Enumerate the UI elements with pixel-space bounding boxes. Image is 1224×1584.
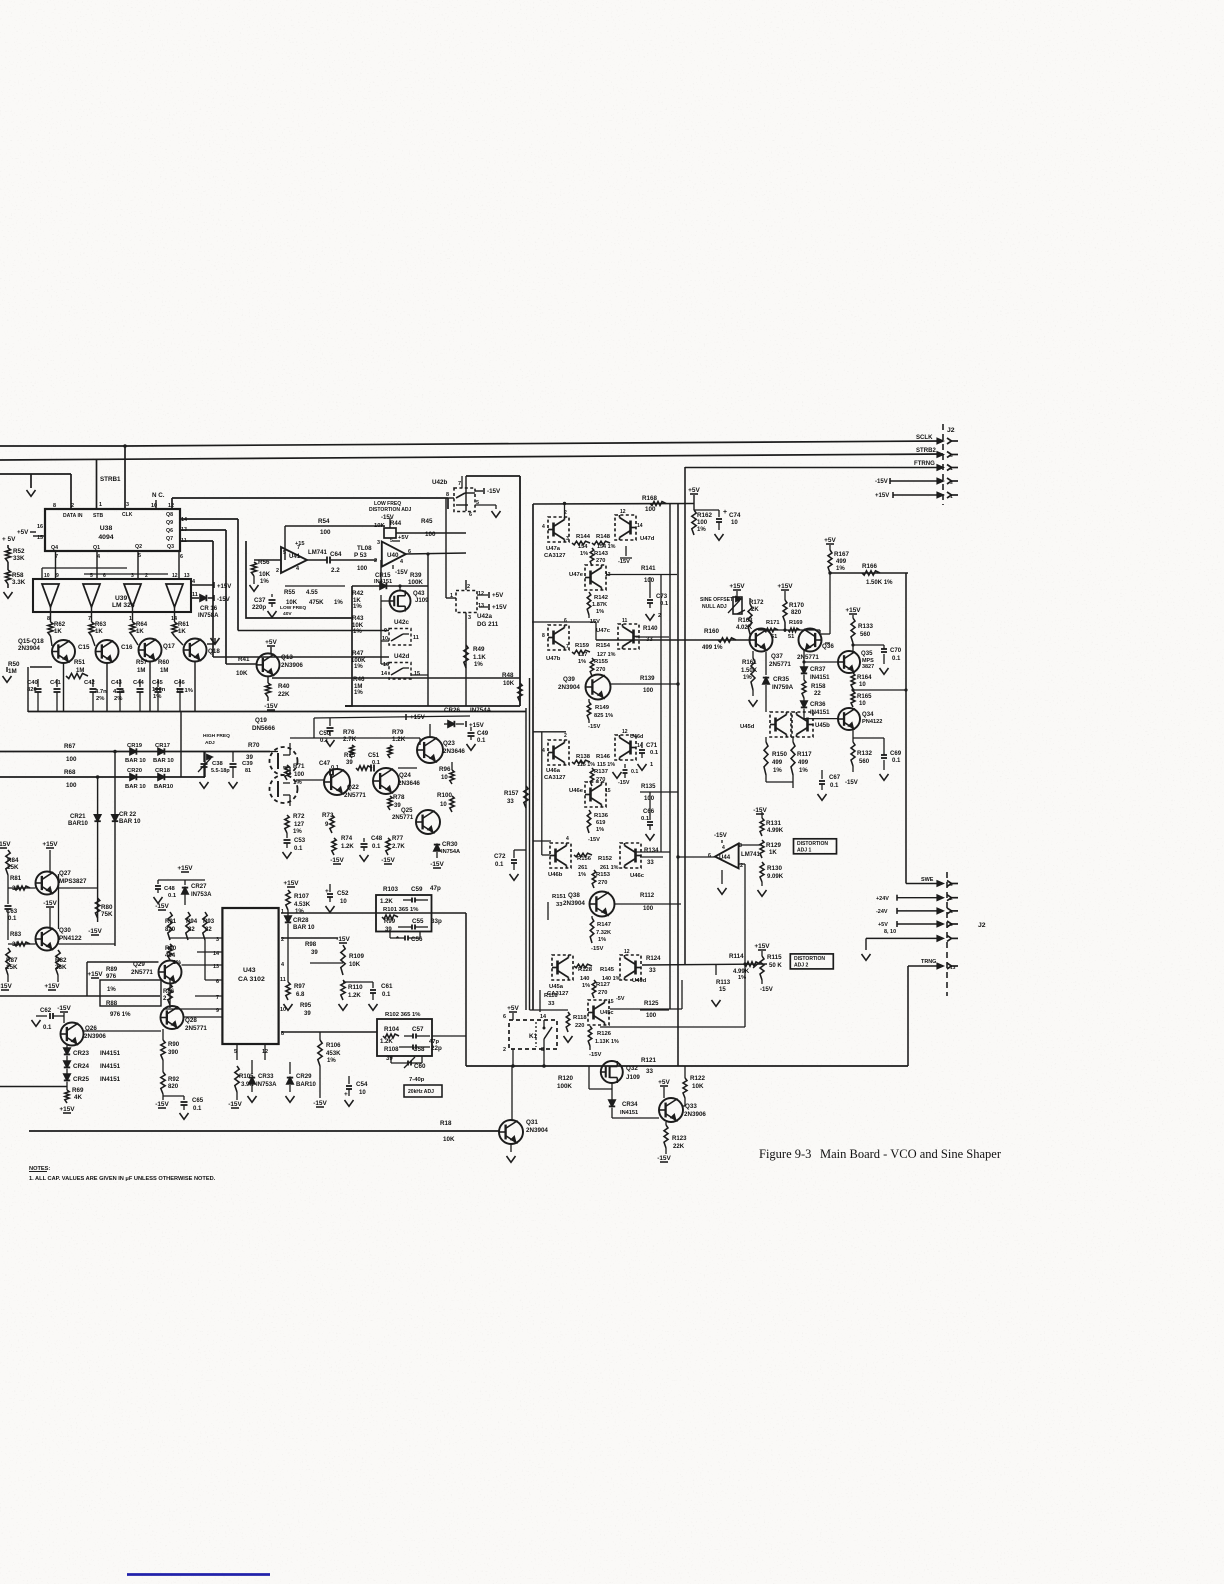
svg-text:R116: R116 <box>544 993 558 999</box>
capacitor C38 5.5-18p trimmer <box>203 752 205 763</box>
svg-text:Q35: Q35 <box>861 651 873 657</box>
svg-text:33: 33 <box>548 1001 555 1007</box>
transistor Q34 PN4122 <box>838 708 860 730</box>
svg-text:15: 15 <box>608 999 614 1005</box>
wire K1 to killed <box>466 1065 908 1067</box>
svg-text:+5V: +5V <box>492 592 504 599</box>
svg-text:R165: R165 <box>857 694 872 700</box>
svg-text:R69: R69 <box>72 1087 84 1094</box>
svg-text:R129: R129 <box>766 842 781 849</box>
svg-text:3: 3 <box>377 540 380 546</box>
svg-text:R140: R140 <box>643 626 658 632</box>
transistor Q18 <box>175 636 184 645</box>
wire array right rail <box>669 504 671 1009</box>
resistor R51 1M <box>66 673 88 678</box>
diode CR21 BAR10 <box>94 815 100 821</box>
svg-text:U42c: U42c <box>394 619 409 626</box>
svg-text:U45c: U45c <box>600 1010 614 1016</box>
ground R161 <box>752 690 754 696</box>
svg-text:10K: 10K <box>503 681 515 687</box>
svg-text:C41: C41 <box>50 680 61 686</box>
svg-text:C46: C46 <box>174 680 185 686</box>
transistor cell U40d <box>620 955 641 980</box>
svg-text:270: 270 <box>596 667 605 673</box>
svg-text:J109: J109 <box>626 1074 640 1081</box>
svg-text:R149: R149 <box>595 705 610 711</box>
svg-text:J2: J2 <box>947 427 955 434</box>
transistor cell U45d <box>770 712 791 737</box>
svg-text:Q31: Q31 <box>526 1119 538 1126</box>
svg-text:Figure 9-3: Figure 9-3 <box>759 1147 811 1161</box>
ground R130 <box>761 882 763 886</box>
capacitor C43 4.7n <box>119 679 121 687</box>
svg-text:4: 4 <box>281 962 284 968</box>
svg-text:R18: R18 <box>440 1120 452 1127</box>
svg-text:261 1%: 261 1% <box>600 865 619 871</box>
svg-text:1: 1 <box>129 616 132 622</box>
svg-text:-5V: -5V <box>616 996 625 1002</box>
svg-text:Main Board - VCO and Sine Shap: Main Board - VCO and Sine Shaper <box>820 1147 1002 1161</box>
transistor Q38 2N3904 <box>590 892 615 917</box>
svg-text:U46e: U46e <box>569 788 584 794</box>
svg-text:1: 1 <box>99 502 102 508</box>
svg-text:1%: 1% <box>107 987 116 993</box>
svg-text:499 1%: 499 1% <box>702 645 723 651</box>
svg-text:R170: R170 <box>789 602 804 609</box>
svg-text:11: 11 <box>413 635 419 641</box>
diode CR36 IN4151 <box>801 701 807 707</box>
wire Q37 base line <box>596 639 751 641</box>
svg-text:-15V: -15V <box>228 1101 242 1108</box>
svg-text:2N3906: 2N3906 <box>684 1111 706 1118</box>
diode CR30 IN754A <box>434 845 440 851</box>
svg-text:7: 7 <box>297 545 300 551</box>
svg-text:U47d: U47d <box>640 536 655 542</box>
svg-text:Q43: Q43 <box>413 591 425 597</box>
svg-text:1.87K: 1.87K <box>592 602 608 608</box>
svg-text:C15: C15 <box>78 644 90 651</box>
svg-text:DATA IN: DATA IN <box>63 513 83 519</box>
svg-text:R123: R123 <box>672 1136 687 1142</box>
wire Q32 drain down <box>611 1089 613 1100</box>
svg-text:U47c: U47c <box>596 628 611 634</box>
svg-text:IN4151: IN4151 <box>100 1063 121 1070</box>
svg-text:10: 10 <box>441 775 448 781</box>
svg-text:-15V: -15V <box>588 724 600 730</box>
svg-text:C43: C43 <box>111 680 122 686</box>
svg-text:1%: 1% <box>697 527 706 533</box>
svg-text:R89: R89 <box>106 967 118 973</box>
svg-text:976 1%: 976 1% <box>110 1012 131 1018</box>
svg-text:Q6: Q6 <box>166 528 173 534</box>
svg-text:BAR10: BAR10 <box>296 1082 316 1088</box>
svg-text:C69: C69 <box>890 751 902 757</box>
transistor Q28 2N5771 <box>161 1006 184 1029</box>
wire K1 pins down <box>512 1049 514 1066</box>
svg-text:3.3K: 3.3K <box>12 579 26 586</box>
svg-text:1.50K: 1.50K <box>741 668 758 674</box>
svg-text:DISTORTION: DISTORTION <box>794 956 825 962</box>
svg-text:6: 6 <box>708 853 711 859</box>
svg-text:IN4151: IN4151 <box>810 675 830 681</box>
power -15V Q13 <box>267 697 269 701</box>
svg-text:Q25: Q25 <box>401 808 413 814</box>
svg-text:R121: R121 <box>641 1057 656 1064</box>
wire U39 pin4 +15V <box>191 584 213 586</box>
svg-text:Q7: Q7 <box>166 536 173 542</box>
svg-text:10K: 10K <box>236 670 248 677</box>
svg-text:C73: C73 <box>656 594 668 600</box>
svg-text:1K: 1K <box>136 629 144 635</box>
wire R41 to Q13 <box>226 663 257 665</box>
svg-text:39: 39 <box>346 760 353 766</box>
svg-text:1.13K 1%: 1.13K 1% <box>595 1039 619 1045</box>
svg-text:0.1: 0.1 <box>477 738 486 744</box>
svg-text:2N3904: 2N3904 <box>563 900 585 907</box>
svg-text:22: 22 <box>814 691 821 697</box>
wire R126 row <box>600 1026 745 1028</box>
svg-text:100K: 100K <box>557 1083 572 1090</box>
ground R56 <box>250 585 259 591</box>
svg-text:2: 2 <box>71 503 74 509</box>
svg-text:R79: R79 <box>392 729 404 736</box>
svg-text:C70: C70 <box>890 648 902 654</box>
svg-text:CR33: CR33 <box>258 1074 274 1080</box>
svg-text:C55: C55 <box>412 918 424 925</box>
svg-text:1%: 1% <box>773 768 782 774</box>
svg-text:22p: 22p <box>431 1045 442 1052</box>
svg-text:R60: R60 <box>158 660 170 666</box>
svg-text:CR17: CR17 <box>155 743 170 749</box>
wire CR21 CR22 drop <box>113 750 117 754</box>
transistor Q19 DN5666 dual-gate <box>270 747 298 775</box>
svg-text:2N5771: 2N5771 <box>344 792 366 799</box>
svg-text:R45: R45 <box>421 518 433 525</box>
svg-text:FTRNG: FTRNG <box>914 461 935 467</box>
svg-text:10K: 10K <box>443 1136 455 1143</box>
svg-text:DG 211: DG 211 <box>477 621 499 628</box>
wire U38 pin13 out <box>180 529 226 531</box>
svg-text:560: 560 <box>860 632 871 638</box>
svg-text:R50: R50 <box>8 661 20 668</box>
svg-text:8: 8 <box>47 616 50 622</box>
wire left rails <box>525 708 527 1010</box>
svg-text:4: 4 <box>722 845 725 851</box>
svg-text:R152: R152 <box>598 856 613 862</box>
resistor R40 22K <box>267 677 269 684</box>
transistor Q16 <box>92 636 96 646</box>
wire U42d input <box>213 656 389 658</box>
wire STRB2 bus <box>0 454 943 460</box>
diode CR20 BAR10 <box>130 774 136 780</box>
svg-text:-15V: -15V <box>618 780 630 786</box>
svg-text:3: 3 <box>126 502 129 508</box>
svg-text:33: 33 <box>647 860 654 866</box>
wire U42c input <box>238 630 389 632</box>
svg-text:7: 7 <box>55 554 58 560</box>
ground C37 low freq <box>268 611 277 617</box>
svg-text:C42: C42 <box>84 680 95 686</box>
svg-text:0.1: 0.1 <box>168 893 177 899</box>
svg-text:CR26: CR26 <box>444 707 461 714</box>
svg-text:39: 39 <box>386 1056 393 1062</box>
svg-text:CR30: CR30 <box>442 842 458 848</box>
svg-text:4.99K: 4.99K <box>767 828 784 834</box>
svg-text:CR37: CR37 <box>810 667 826 673</box>
capacitor C70 0.1 <box>853 644 884 646</box>
wire Q19 circuit lines <box>313 718 315 738</box>
svg-text:R62: R62 <box>54 622 66 628</box>
svg-text:ADJ 2: ADJ 2 <box>794 963 808 969</box>
wire bottom bus <box>28 711 526 713</box>
svg-text:-15V: -15V <box>589 1052 601 1058</box>
svg-text:C45: C45 <box>152 680 163 686</box>
svg-text:R147: R147 <box>597 922 611 928</box>
svg-text:Q2: Q2 <box>135 544 142 550</box>
svg-text:IN4151: IN4151 <box>374 579 392 585</box>
svg-text:1K: 1K <box>95 629 103 635</box>
diode CR18 BAR10 <box>158 774 164 780</box>
svg-text:U47a: U47a <box>546 546 561 552</box>
svg-text:1%: 1% <box>836 566 845 572</box>
svg-text:Q22: Q22 <box>347 784 359 791</box>
capacitor C44 <box>139 679 141 687</box>
svg-text:R107: R107 <box>294 893 309 900</box>
wires U43 left pins <box>170 937 222 939</box>
svg-text:1: 1 <box>281 909 284 915</box>
svg-text:BAR10: BAR10 <box>154 784 174 790</box>
wire U43 pin8 to R102 box <box>281 1031 377 1033</box>
wire R68 line <box>0 776 205 778</box>
svg-text:39: 39 <box>311 950 318 956</box>
svg-text:Q28: Q28 <box>185 1017 197 1024</box>
svg-text:1%: 1% <box>799 768 808 774</box>
svg-text:R80: R80 <box>101 904 113 911</box>
svg-text:-15V: -15V <box>264 703 278 710</box>
svg-text:U45b: U45b <box>815 723 830 729</box>
svg-text:2N3906: 2N3906 <box>281 662 303 669</box>
svg-text:10: 10 <box>340 899 347 905</box>
IC U39 LM324 <box>33 579 191 612</box>
svg-text:R167: R167 <box>834 551 849 558</box>
svg-text:13: 13 <box>478 603 484 609</box>
svg-text:2%: 2% <box>96 696 105 702</box>
svg-text:2N5771: 2N5771 <box>769 661 791 668</box>
svg-text:100: 100 <box>357 566 368 572</box>
svg-text:+15V: +15V <box>875 493 889 499</box>
svg-text:R81: R81 <box>10 876 22 882</box>
svg-text:-15V: -15V <box>381 515 394 521</box>
svg-text:1%: 1% <box>353 604 362 610</box>
resistor R61 1K <box>174 607 176 622</box>
wire R168 line <box>533 503 694 506</box>
svg-text:C64: C64 <box>330 551 342 558</box>
svg-text:BAR 10: BAR 10 <box>153 758 175 764</box>
svg-text:U40d: U40d <box>632 978 647 984</box>
wire diode chain bus <box>0 1086 67 1088</box>
resistor R62 1K <box>50 607 52 622</box>
capacitor C46 1u <box>179 679 181 687</box>
svg-text:3: 3 <box>566 536 569 542</box>
svg-text:CLK: CLK <box>122 512 133 518</box>
svg-text:499: 499 <box>772 760 783 766</box>
svg-text:0.1: 0.1 <box>650 750 659 756</box>
svg-text:R63: R63 <box>95 622 107 628</box>
svg-text:15: 15 <box>605 788 611 794</box>
svg-text:2.7K: 2.7K <box>392 844 405 850</box>
svg-text:R151: R151 <box>552 894 567 900</box>
svg-text:+: + <box>325 888 329 895</box>
svg-text:2N3906: 2N3906 <box>84 1033 106 1040</box>
transistor cell U46d <box>615 735 636 760</box>
pot R44 balance <box>384 528 396 538</box>
node CLK junction <box>123 444 127 448</box>
svg-text:976: 976 <box>106 974 117 980</box>
svg-text:6: 6 <box>950 453 953 459</box>
capacitor C40 820 <box>37 679 39 687</box>
svg-text:220p: 220p <box>252 604 266 611</box>
svg-text:R141: R141 <box>641 566 656 572</box>
svg-text:R113: R113 <box>716 980 731 986</box>
svg-text:475K: 475K <box>309 600 324 606</box>
diode CR34 IN4151 <box>609 1100 615 1106</box>
svg-text:100: 100 <box>320 529 331 536</box>
svg-text:9: 9 <box>950 882 953 888</box>
svg-text:SWE: SWE <box>921 877 934 883</box>
svg-text:Q30: Q30 <box>59 927 71 934</box>
transistor cell U47d <box>615 515 636 540</box>
wire Q27 collector to R80 <box>59 887 98 889</box>
svg-text:R55: R55 <box>284 590 296 596</box>
svg-text:Q39: Q39 <box>563 676 575 683</box>
svg-text:CR 22: CR 22 <box>119 812 137 818</box>
svg-text:U45d: U45d <box>740 724 755 730</box>
svg-text:R64: R64 <box>136 622 148 628</box>
svg-text:R88: R88 <box>106 1001 118 1007</box>
svg-text:LM741: LM741 <box>308 550 327 556</box>
svg-text:IN754A: IN754A <box>441 849 460 855</box>
wire CLK drop <box>124 446 126 509</box>
svg-text:CR36: CR36 <box>810 702 826 708</box>
transistor Q17 <box>133 636 139 645</box>
svg-text:22K: 22K <box>278 691 290 698</box>
svg-text:R54: R54 <box>318 518 330 525</box>
svg-text:J2: J2 <box>978 922 986 929</box>
box DISTORTION ADJ 1 <box>794 839 837 854</box>
svg-text:3: 3 <box>950 480 953 486</box>
svg-text:C48: C48 <box>371 836 383 842</box>
svg-text:15: 15 <box>414 671 420 677</box>
svg-text:-15V: -15V <box>753 807 767 814</box>
svg-text:100K: 100K <box>408 579 423 586</box>
svg-text:CR18: CR18 <box>155 768 171 774</box>
svg-text:C44: C44 <box>133 680 144 686</box>
svg-text:R70: R70 <box>248 742 260 749</box>
svg-text:9.09K: 9.09K <box>767 874 784 880</box>
svg-text:J109: J109 <box>415 598 429 604</box>
svg-text:R61: R61 <box>178 622 190 628</box>
svg-text:C56: C56 <box>411 936 423 943</box>
svg-text:4.02K: 4.02K <box>736 625 753 631</box>
svg-text:R52: R52 <box>13 548 25 555</box>
svg-text:R51: R51 <box>74 660 86 666</box>
pot R172 2K <box>733 597 742 614</box>
svg-text:CA 3102: CA 3102 <box>238 976 265 983</box>
svg-text:C50: C50 <box>319 731 331 737</box>
svg-text:0.1: 0.1 <box>631 769 638 775</box>
svg-text:CA3127: CA3127 <box>544 775 565 781</box>
svg-text:1%: 1% <box>596 609 604 615</box>
svg-text:-15V: -15V <box>88 928 102 935</box>
svg-text:CA3127: CA3127 <box>544 553 565 559</box>
svg-text:1K: 1K <box>178 629 186 635</box>
svg-text:ADJ 1: ADJ 1 <box>797 848 811 854</box>
box around U41 section <box>246 541 352 618</box>
svg-text:C52: C52 <box>337 890 349 897</box>
svg-text:1. ALL CAP. VALUES ARE GIV: 1. ALL CAP. VALUES ARE GIVEN IN μF UNLES… <box>29 1176 216 1182</box>
svg-text:-15V: -15V <box>395 570 408 576</box>
svg-text:-15V: -15V <box>217 597 230 603</box>
svg-text:619: 619 <box>596 820 605 826</box>
svg-text:4: 4 <box>566 836 569 842</box>
svg-text:0.1: 0.1 <box>8 916 17 922</box>
svg-text:1%: 1% <box>598 937 606 943</box>
svg-text:14: 14 <box>381 671 387 677</box>
wire U44 output <box>678 856 715 858</box>
svg-text:R154: R154 <box>596 643 611 649</box>
svg-text:R42: R42 <box>352 590 364 597</box>
svg-text:100: 100 <box>643 906 654 912</box>
svg-text:U45a: U45a <box>549 984 564 990</box>
op-amp U44 LM741 <box>715 844 739 869</box>
svg-text:+5V: +5V <box>824 537 836 544</box>
wires U38 outputs to U39 inputs <box>55 551 57 579</box>
wire Q37-Q36 base bridge <box>758 629 820 631</box>
svg-text:R131: R131 <box>766 820 781 827</box>
ground Q31 <box>510 1144 512 1152</box>
svg-text:Q18: Q18 <box>208 648 220 655</box>
svg-text:10: 10 <box>359 1090 366 1096</box>
svg-text:PN4122: PN4122 <box>862 719 882 725</box>
svg-text:R142: R142 <box>594 595 609 601</box>
wire pin8 net down <box>465 913 467 1066</box>
svg-text:1%: 1% <box>334 600 343 606</box>
svg-text:Q37: Q37 <box>771 653 783 660</box>
svg-text:51: 51 <box>788 634 794 640</box>
IC U38 4094 <box>45 509 180 551</box>
svg-text:R159: R159 <box>575 643 590 649</box>
svg-text:2: 2 <box>276 568 279 574</box>
transistor cell U45b <box>792 712 813 737</box>
transistor Q26 2N3906 <box>61 1023 84 1046</box>
svg-text:1%: 1% <box>578 659 586 665</box>
svg-text:270: 270 <box>598 880 607 886</box>
svg-text:R108: R108 <box>384 1047 399 1053</box>
svg-text:0.1: 0.1 <box>43 1025 52 1031</box>
svg-text:DISTORTION ADJ: DISTORTION ADJ <box>369 507 412 513</box>
transistor cell U46c <box>620 843 641 868</box>
svg-text:STB: STB <box>93 513 103 519</box>
svg-text:U46d: U46d <box>630 734 643 740</box>
svg-text:R115: R115 <box>767 954 782 961</box>
wire R102 box to vertical <box>432 1035 466 1037</box>
svg-text:560: 560 <box>859 759 870 765</box>
wire U42b to -15V <box>475 490 483 492</box>
svg-text:2: 2 <box>564 733 567 739</box>
svg-text:C37: C37 <box>254 597 266 604</box>
svg-text:R155: R155 <box>594 659 609 665</box>
svg-text:4: 4 <box>192 579 195 585</box>
